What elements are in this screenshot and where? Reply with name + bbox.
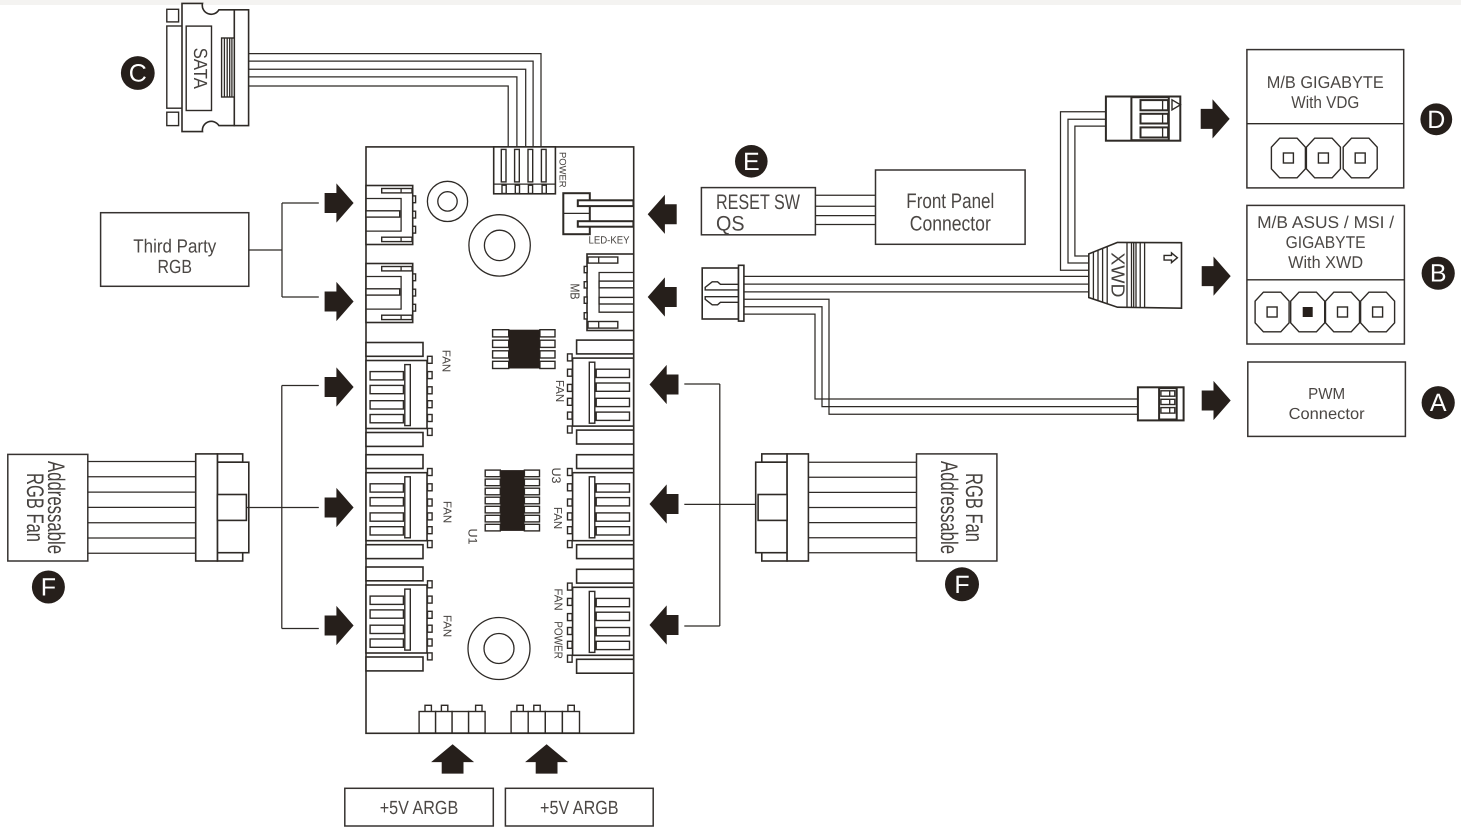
label MB bbox=[568, 284, 583, 300]
label FAN R3 bbox=[552, 588, 564, 610]
label SATA bbox=[189, 48, 210, 89]
arrow VDG to D bbox=[1201, 99, 1230, 138]
arrow into RGB header 1 bbox=[325, 183, 354, 222]
wire plug to XWD line 3 bbox=[744, 291, 1089, 293]
badge D bbox=[1420, 103, 1452, 135]
pin octagon B4 bbox=[1361, 292, 1395, 332]
label U1 bbox=[466, 529, 480, 545]
mounting hole center big bbox=[469, 215, 530, 276]
connector ARGB plug left bbox=[196, 454, 249, 561]
box Addressable RGB Fan left bbox=[8, 454, 88, 561]
svg-text:FAN: FAN bbox=[441, 501, 453, 523]
svg-text:POWER: POWER bbox=[557, 152, 568, 188]
connector 2-prong plug bbox=[702, 265, 744, 321]
svg-text:A: A bbox=[1430, 389, 1447, 417]
arrow plug to MB bbox=[648, 277, 677, 316]
label POWER (bottom right connector) bbox=[552, 621, 564, 659]
connector FAN L2 bbox=[366, 455, 432, 559]
IC U1 (middle, 14-pin) bbox=[485, 470, 539, 531]
svg-text:RGB Fan: RGB Fan bbox=[960, 473, 987, 542]
svg-text:RESET SW: RESET SW bbox=[716, 191, 800, 214]
wire XWD to VDG line 1 bbox=[1061, 112, 1106, 271]
badge E bbox=[735, 145, 768, 178]
box Addressable RGB Fan right bbox=[917, 454, 997, 561]
svg-text:E: E bbox=[743, 148, 760, 176]
arrow into FAN L3 bbox=[325, 606, 354, 645]
pin octagon D2 bbox=[1306, 138, 1340, 178]
connector MB (PCB right) bbox=[584, 254, 634, 331]
svg-text:FAN: FAN bbox=[552, 588, 564, 610]
svg-text:Third Party: Third Party bbox=[133, 236, 216, 257]
svg-text:POWER: POWER bbox=[552, 621, 564, 659]
svg-text:B: B bbox=[1430, 260, 1447, 288]
bottom pin group 1 bbox=[419, 705, 485, 733]
bottom pin group 2 bbox=[511, 705, 579, 733]
svg-text:QS: QS bbox=[716, 213, 745, 236]
connector FAN R1 bbox=[568, 340, 634, 444]
svg-text:F: F bbox=[954, 571, 969, 599]
connector FAN L1 bbox=[366, 343, 432, 447]
mounting hole bottom big bbox=[468, 618, 530, 680]
svg-text:+5V ARGB: +5V ARGB bbox=[540, 798, 619, 819]
badge F left bbox=[32, 571, 65, 604]
arrow into FAN L2 bbox=[325, 488, 354, 527]
SATA connector body bbox=[182, 3, 249, 131]
arrow up 2 bbox=[525, 744, 568, 773]
connector XWD adapter bbox=[1089, 242, 1182, 308]
wire plug to PWM line 3 bbox=[744, 314, 1138, 399]
pin octagon B3 bbox=[1326, 292, 1360, 332]
pin octagon B2 (keyed) bbox=[1291, 292, 1325, 332]
svg-text:SATA: SATA bbox=[189, 48, 210, 89]
arrow RESET to LED-KEY bbox=[648, 195, 677, 234]
svg-text:GIGABYTE: GIGABYTE bbox=[1286, 233, 1366, 252]
wire XWD to VDG line 3 bbox=[1075, 126, 1106, 256]
wire SATA to POWER line 3 bbox=[249, 69, 526, 147]
SATA connector blade strip bbox=[167, 9, 182, 125]
svg-text:FAN: FAN bbox=[441, 615, 453, 637]
arrow into FAN R2 bbox=[650, 484, 679, 523]
box PWM Connector bbox=[1248, 362, 1406, 436]
label FAN L2 bbox=[441, 501, 453, 523]
box M/B GIGABYTE With VDG bbox=[1247, 50, 1404, 188]
svg-text:U3: U3 bbox=[549, 468, 563, 484]
label POWER (top connector) bbox=[557, 152, 568, 188]
connector RGB header 2 (left) bbox=[366, 264, 416, 323]
label FAN L3 bbox=[441, 615, 453, 637]
IC U2 (top, 8-pin) bbox=[493, 330, 555, 369]
pin octagon D1 bbox=[1271, 138, 1305, 178]
wire left fan splitter bbox=[246, 386, 318, 629]
connector RGB header 1 (left top) bbox=[366, 186, 416, 245]
wire SATA to POWER line 5 bbox=[249, 86, 509, 147]
svg-text:D: D bbox=[1427, 106, 1445, 134]
connector POWER (PCB top) bbox=[494, 147, 556, 194]
wire ARGB fan left bundle bbox=[88, 462, 196, 554]
pin octagon D3 bbox=[1343, 138, 1377, 178]
label FAN L1 bbox=[439, 350, 451, 372]
wire plug to XWD line 2 bbox=[744, 283, 1089, 285]
svg-text:LED-KEY: LED-KEY bbox=[589, 235, 630, 247]
svg-text:RGB Fan: RGB Fan bbox=[21, 473, 48, 542]
arrow into FAN R3 bbox=[650, 605, 679, 644]
wire SATA to POWER line 4 bbox=[249, 77, 517, 147]
arrow into FAN R1 bbox=[650, 365, 679, 404]
wire RESET to Front Panel bbox=[815, 195, 875, 224]
box +5V ARGB left bbox=[345, 788, 494, 826]
label U3 bbox=[549, 468, 563, 484]
badge F right bbox=[945, 567, 979, 601]
box M/B ASUS MSI GIGABYTE With XWD bbox=[1247, 205, 1405, 344]
svg-text:RGB: RGB bbox=[158, 257, 193, 278]
connector FAN L3 bbox=[366, 567, 432, 671]
wire Third Party stub bbox=[249, 249, 282, 251]
svg-text:F: F bbox=[41, 574, 56, 602]
connector PWM plug bbox=[1138, 387, 1184, 420]
svg-text:C: C bbox=[129, 60, 147, 88]
connector ARGB plug right bbox=[756, 454, 809, 561]
connector VDG 3-pin bbox=[1106, 97, 1181, 141]
label FAN R1 bbox=[553, 380, 565, 402]
wire SATA to POWER line 2 bbox=[249, 61, 533, 147]
box RESET SW QS bbox=[701, 188, 815, 236]
arrow up 1 bbox=[431, 744, 474, 773]
badge B bbox=[1422, 257, 1455, 290]
svg-text:FAN: FAN bbox=[439, 350, 451, 372]
label LED-KEY bbox=[589, 235, 630, 247]
box Front Panel Connector bbox=[876, 170, 1026, 244]
arrow PWM to A bbox=[1202, 381, 1231, 420]
wire plug to PWM line 2 bbox=[744, 307, 1138, 407]
arrow XWD to B bbox=[1202, 257, 1231, 296]
wire Third Party splitter bbox=[282, 203, 319, 297]
mounting hole top small bbox=[427, 181, 467, 221]
svg-text:Addressable: Addressable bbox=[935, 461, 962, 554]
arrow into RGB header 2 bbox=[325, 282, 354, 321]
svg-text:FAN: FAN bbox=[553, 380, 565, 402]
arrow into FAN L1 bbox=[325, 367, 354, 406]
box Third Party RGB bbox=[101, 213, 249, 287]
wire right fan splitter bbox=[684, 384, 755, 626]
svg-text:+5V ARGB: +5V ARGB bbox=[380, 798, 459, 819]
svg-text:FAN: FAN bbox=[551, 507, 563, 529]
badge C bbox=[121, 56, 155, 90]
svg-text:M/B ASUS / MSI /: M/B ASUS / MSI / bbox=[1257, 213, 1394, 232]
svg-text:M/B GIGABYTE: M/B GIGABYTE bbox=[1267, 73, 1384, 92]
pin octagon B1 bbox=[1255, 292, 1289, 332]
wire ARGB fan right bundle bbox=[808, 462, 916, 553]
wire XWD to VDG line 2 bbox=[1068, 119, 1106, 263]
box +5V ARGB right bbox=[505, 788, 653, 826]
PCB hub board outline bbox=[366, 147, 634, 733]
svg-text:With XWD: With XWD bbox=[1288, 253, 1363, 272]
connector FAN R3 bbox=[568, 569, 634, 673]
svg-text:PWM: PWM bbox=[1308, 386, 1345, 403]
label XWD bbox=[1107, 252, 1128, 297]
svg-text:U1: U1 bbox=[466, 529, 480, 545]
svg-text:Front Panel: Front Panel bbox=[906, 190, 994, 213]
wire plug to XWD line 1 bbox=[744, 275, 1089, 277]
svg-text:XWD: XWD bbox=[1107, 252, 1128, 297]
connector FAN R2 bbox=[568, 455, 634, 559]
badge A bbox=[1422, 386, 1455, 419]
svg-text:With VDG: With VDG bbox=[1291, 93, 1359, 112]
svg-text:Connector: Connector bbox=[910, 212, 991, 235]
wire plug to PWM line 1 bbox=[744, 299, 1138, 414]
svg-text:Connector: Connector bbox=[1289, 406, 1366, 423]
label FAN R2 bbox=[551, 507, 563, 529]
svg-text:MB: MB bbox=[568, 284, 583, 300]
wire SATA to POWER line 1 bbox=[249, 54, 541, 147]
connector LED-KEY bbox=[563, 193, 633, 234]
